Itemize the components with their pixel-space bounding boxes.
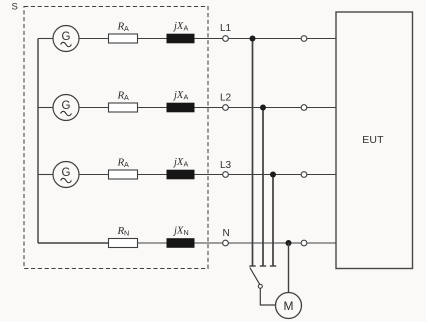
terminal L2 right bbox=[301, 105, 307, 111]
inductor jXN (N) bbox=[167, 226, 194, 248]
svg-text:S: S bbox=[12, 1, 18, 12]
motor M bbox=[276, 293, 302, 319]
svg-text:G: G bbox=[62, 31, 71, 43]
terminal N right bbox=[301, 240, 307, 246]
switch pivot terminal bbox=[258, 284, 262, 288]
generator G2 bbox=[53, 95, 79, 121]
wire switch drop L2 bbox=[262, 108, 264, 267]
svg-text:EUT: EUT bbox=[362, 134, 384, 146]
svg-text:N: N bbox=[184, 228, 189, 237]
svg-text:M: M bbox=[284, 299, 294, 313]
svg-text:A: A bbox=[184, 93, 189, 102]
svg-text:G: G bbox=[62, 100, 71, 112]
junction L2 bbox=[260, 105, 266, 111]
EUT box bbox=[336, 12, 413, 269]
wire L2 row bbox=[79, 107, 336, 109]
inductor jXA (L1) bbox=[167, 21, 194, 43]
svg-text:jX: jX bbox=[172, 226, 184, 237]
svg-text:A: A bbox=[124, 93, 129, 102]
svg-text:G: G bbox=[62, 167, 71, 179]
svg-text:jX: jX bbox=[172, 21, 184, 32]
svg-text:jX: jX bbox=[172, 157, 184, 168]
wire bus to N row bbox=[38, 242, 109, 244]
junction N bbox=[286, 240, 292, 246]
svg-text:jX: jX bbox=[172, 90, 184, 101]
svg-text:A: A bbox=[184, 160, 189, 169]
svg-text:A: A bbox=[124, 24, 129, 33]
svg-text:A: A bbox=[124, 160, 129, 169]
wire N junction to motor bbox=[288, 243, 290, 293]
svg-text:L2: L2 bbox=[220, 93, 232, 104]
svg-text:A: A bbox=[184, 24, 189, 33]
source box S (dashed enclosure) bbox=[24, 7, 208, 269]
wire bus left vertical bbox=[37, 39, 39, 244]
wire L3 row bbox=[79, 174, 336, 176]
terminal L3 left bbox=[223, 172, 229, 178]
terminal L1 right bbox=[301, 36, 307, 42]
generator G3 bbox=[53, 162, 79, 188]
wire switch drop L1 bbox=[252, 39, 254, 267]
terminal L2 left bbox=[223, 105, 229, 111]
junction L1 bbox=[250, 36, 256, 42]
wire bus to G3 bbox=[38, 174, 53, 176]
inductor jXA (L2) bbox=[167, 90, 194, 112]
wire bus to G1 bbox=[38, 38, 53, 40]
contact tick L1 bbox=[249, 265, 255, 267]
svg-text:N: N bbox=[223, 228, 230, 239]
resistor RA (L1) bbox=[109, 21, 138, 44]
resistor RA (L3) bbox=[109, 157, 138, 180]
wire bus to G2 bbox=[38, 107, 53, 109]
inductor jXA (L3) bbox=[167, 157, 194, 179]
switch blade bbox=[250, 268, 260, 285]
resistor RA (L2) bbox=[109, 90, 138, 113]
junction L3 bbox=[270, 172, 276, 178]
svg-text:N: N bbox=[124, 229, 129, 238]
wire switch drop L3 bbox=[272, 175, 274, 267]
contact tick L2 bbox=[260, 265, 266, 267]
svg-text:L1: L1 bbox=[220, 23, 232, 34]
terminal L3 right bbox=[301, 172, 307, 178]
generator G1 bbox=[53, 26, 79, 52]
svg-text:L3: L3 bbox=[220, 160, 232, 171]
contact tick L3 bbox=[270, 265, 276, 267]
resistor RN (N) bbox=[109, 225, 138, 248]
wire N row bbox=[109, 242, 336, 244]
terminal L1 left bbox=[223, 36, 229, 42]
terminal N left bbox=[223, 240, 229, 246]
wire L1 row bbox=[79, 38, 336, 40]
wire switch to motor bbox=[260, 288, 276, 305]
